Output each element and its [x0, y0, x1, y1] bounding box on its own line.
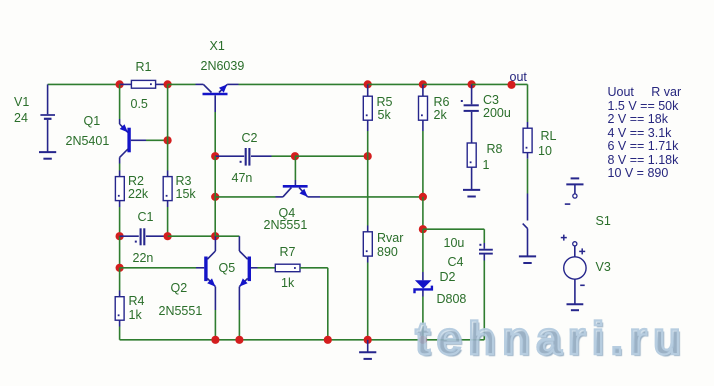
node junction R5 bottom / Rvar top — [364, 152, 372, 160]
label out — [510, 70, 528, 84]
wire C2 to R5 column — [295, 155, 368, 157]
wire R3 to C1 junction — [167, 207, 169, 236]
label Q2 — [171, 281, 188, 295]
svg-text:200u: 200u — [483, 106, 511, 120]
svg-text:6 V == 1.71k: 6 V == 1.71k — [608, 139, 680, 153]
label 2k — [434, 108, 448, 122]
label R2 — [128, 174, 144, 188]
svg-text:C4: C4 — [448, 255, 464, 269]
label Q5 — [219, 261, 236, 275]
label R8 — [487, 142, 503, 156]
wire RL to switch — [527, 159, 529, 221]
wire C1 row to Q5 collector corner — [215, 235, 239, 237]
node junction R6 top — [419, 80, 427, 88]
switch S1 control ground (inverted) — [566, 178, 583, 198]
wire R2 to C1 junction — [119, 207, 121, 236]
node junction Rvar bottom / ground — [364, 336, 372, 344]
label 2N5551 (Q2) — [159, 304, 203, 318]
transistor Q2 — [120, 236, 216, 340]
label D808 — [437, 292, 467, 306]
wire C1 to Q2 collector junction — [168, 235, 216, 237]
svg-text:1k: 1k — [281, 276, 295, 290]
svg-text:V3: V3 — [596, 260, 611, 274]
ground below R8 — [463, 190, 480, 197]
resistor R7 — [275, 264, 328, 340]
wire X1 base column Q4 row to C1 row — [214, 197, 216, 236]
resistor R5 — [363, 84, 372, 156]
label R3 — [176, 174, 192, 188]
resistor RL — [523, 122, 532, 159]
svg-text:47n: 47n — [232, 171, 253, 185]
resistor R3 — [163, 171, 172, 208]
svg-text:Rvar: Rvar — [377, 231, 403, 245]
svg-text:C3: C3 — [483, 93, 499, 107]
switch S1 blade — [523, 224, 528, 229]
resistor R8 — [467, 143, 476, 190]
svg-text:1.5 V == 50k: 1.5 V == 50k — [608, 99, 680, 113]
battery V1 — [40, 84, 55, 151]
wire R3 column to R3 — [167, 140, 169, 170]
node junction Q2 collector / X1 base column — [211, 232, 219, 240]
capacitor C3 — [461, 84, 479, 143]
svg-text:R3: R3 — [176, 174, 192, 188]
label D2 — [440, 270, 456, 284]
svg-text:2N5401: 2N5401 — [66, 134, 110, 148]
label 10 — [538, 144, 552, 158]
svg-text:2 V == 18k: 2 V == 18k — [608, 112, 669, 126]
wire R2 column C1 to Q2 base row — [119, 236, 121, 268]
resistor R6 — [419, 84, 428, 196]
label 2N5551 (Q4) — [264, 218, 308, 232]
wire Q1 collector to R2 — [119, 164, 121, 171]
svg-text:D2: D2 — [440, 270, 456, 284]
wire C4 row junction to C4 — [423, 228, 484, 230]
label 890 — [377, 245, 398, 259]
label 22n — [133, 251, 154, 265]
svg-text:10: 10 — [538, 144, 552, 158]
wire Q2 base column to R4 — [119, 268, 121, 297]
watermark tehnari.ru — [415, 311, 687, 365]
wire R3 column top — [167, 84, 169, 140]
svg-text:10 V = 890: 10 V = 890 — [608, 166, 669, 180]
svg-text:4 V == 3.1k: 4 V == 3.1k — [608, 126, 673, 140]
capacitor C4 — [479, 229, 493, 340]
node junction C3 top — [468, 80, 476, 88]
source V3 circle — [564, 257, 586, 279]
ground below switch — [519, 256, 536, 263]
label 24 — [14, 111, 28, 125]
label V3 — [596, 260, 611, 274]
label 200u — [483, 106, 511, 120]
label 47n — [232, 171, 253, 185]
transistor X1 — [196, 84, 239, 112]
svg-text:2N6039: 2N6039 — [201, 59, 245, 73]
label Q1 — [84, 114, 101, 128]
wire top rail C3 to out corner — [472, 83, 528, 85]
wire switch to ground — [527, 229, 529, 257]
node junction Q4 collector wire — [211, 193, 219, 201]
ground below V1 — [39, 152, 56, 159]
label R1 — [136, 60, 152, 74]
svg-text:R1: R1 — [136, 60, 152, 74]
node junction C2 right / Q4 base — [291, 152, 299, 160]
label R7 — [280, 245, 296, 259]
label 1k (R4) — [129, 308, 143, 322]
label 0.5 — [131, 97, 148, 111]
label 2N6039 — [201, 59, 245, 73]
node junction C1 right / R3 bottom — [164, 232, 172, 240]
transistor Q5 — [239, 236, 275, 340]
resistor R1 — [120, 80, 168, 88]
svg-text:Q5: Q5 — [219, 261, 236, 275]
svg-text:R4: R4 — [129, 294, 145, 308]
label C2 — [242, 131, 258, 145]
label 1 — [483, 158, 490, 172]
wire rail corner to RL — [527, 84, 529, 122]
node junction C2 left — [211, 152, 219, 160]
wire bottom rail — [120, 339, 485, 341]
svg-text:Q1: Q1 — [84, 114, 101, 128]
label 15k — [176, 187, 197, 201]
wire V3 to ground — [574, 279, 576, 304]
svg-text:V1: V1 — [14, 95, 29, 109]
node out — [507, 81, 515, 89]
svg-text:2N5551: 2N5551 — [264, 218, 308, 232]
label Rvar — [377, 231, 403, 245]
wire Rvar column top — [367, 156, 369, 225]
label C4 — [448, 255, 464, 269]
transistor Q4 — [283, 156, 308, 197]
svg-text:R8: R8 — [487, 142, 503, 156]
wire X1 base down — [214, 112, 216, 156]
svg-text:R5: R5 — [377, 95, 393, 109]
label 2N5401 — [66, 134, 110, 148]
svg-text:15k: 15k — [176, 187, 197, 201]
node junction Q2 base — [116, 264, 124, 272]
svg-text:out: out — [510, 70, 528, 84]
svg-text:0.5: 0.5 — [131, 97, 148, 111]
wire top rail X1 to R5 — [239, 83, 368, 85]
node junction Q5 emitter bottom — [235, 336, 243, 344]
resistor R2 — [115, 171, 124, 208]
svg-text:8 V == 1.18k: 8 V == 1.18k — [608, 153, 680, 167]
node junction R7 bottom — [324, 336, 332, 344]
label 1k — [281, 276, 295, 290]
zener diode D2 — [415, 229, 432, 340]
source V3 minus mark — [580, 284, 585, 286]
svg-text:1: 1 — [483, 158, 490, 172]
svg-text:5k: 5k — [378, 108, 392, 122]
wire Q4 emitter to R6 column — [308, 196, 423, 198]
label 22k — [128, 187, 149, 201]
svg-text:2k: 2k — [434, 108, 448, 122]
svg-text:890: 890 — [377, 245, 398, 259]
ground below V3 — [567, 304, 584, 310]
svg-text:R6: R6 — [434, 95, 450, 109]
wire R6 column to C4 row — [422, 197, 424, 229]
resistor Rvar — [363, 226, 372, 340]
node junction Q4 emitter / R6 bottom — [419, 193, 427, 201]
label 10u — [444, 236, 465, 250]
label minus S1 — [565, 203, 571, 205]
wire top rail R5 to R6 — [368, 83, 423, 85]
svg-text:2N5551: 2N5551 — [159, 304, 203, 318]
resistor R4 — [115, 297, 124, 340]
svg-text:S1: S1 — [596, 214, 611, 228]
wire Q4 collector to junction — [215, 196, 283, 198]
wire top rail battery to R1 — [48, 83, 120, 85]
svg-text:R7: R7 — [280, 245, 296, 259]
label R4 — [129, 294, 145, 308]
node junction Q2 emitter bottom — [211, 336, 219, 344]
wire top rail R1 to X1 — [168, 83, 196, 85]
transistor Q1 — [120, 84, 168, 163]
svg-text:C2: C2 — [242, 131, 258, 145]
svg-text:D808: D808 — [437, 292, 467, 306]
label C3 — [483, 93, 499, 107]
svg-text:R2: R2 — [128, 174, 144, 188]
source V3 plus mark — [579, 248, 585, 254]
node junction R1 right / R3 column — [164, 80, 172, 88]
table Uout vs R var — [608, 85, 682, 180]
label X1 — [210, 39, 225, 53]
svg-text:24: 24 — [14, 111, 28, 125]
node junction R5 top — [364, 80, 372, 88]
svg-text:10u: 10u — [444, 236, 465, 250]
svg-text:C1: C1 — [138, 210, 154, 224]
label RL — [541, 129, 557, 143]
svg-text:1k: 1k — [129, 308, 143, 322]
svg-text:22k: 22k — [128, 187, 149, 201]
wire top rail R6 to C3 — [423, 83, 472, 85]
label S1 — [596, 214, 611, 228]
node junction Q1 base / R3 — [164, 136, 172, 144]
label C1 — [138, 210, 154, 224]
node junction C1 left — [116, 232, 124, 240]
source V3 plus terminal — [561, 235, 577, 257]
label 5k — [378, 108, 392, 122]
label V1 — [14, 95, 29, 109]
svg-text:Uout R var: Uout R var — [608, 85, 682, 99]
label R6 — [434, 95, 450, 109]
svg-text:Q2: Q2 — [171, 281, 188, 295]
wire X1 base column C2 to Q4 row — [214, 156, 216, 197]
svg-text:22n: 22n — [133, 251, 154, 265]
ground below bottom rail — [359, 340, 376, 359]
svg-text:RL: RL — [541, 129, 557, 143]
label Q4 — [279, 206, 296, 220]
capacitor C1 — [120, 228, 168, 245]
node junction C4 row / D2 top — [419, 225, 427, 233]
label R5 — [377, 95, 393, 109]
svg-text:X1: X1 — [210, 39, 225, 53]
capacitor C2 — [215, 148, 295, 166]
node junction D2 bottom — [419, 336, 427, 344]
node junction top-left (battery/R1/Q1 emitter) — [116, 80, 124, 88]
